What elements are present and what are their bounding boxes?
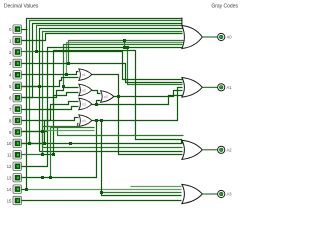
wire w34 bbox=[92, 96, 183, 105]
junction dot at 39,86 bbox=[38, 85, 41, 88]
svg-text:x3: x3 bbox=[82, 103, 86, 107]
input pin 7 bbox=[9, 105, 21, 113]
junction dot at 124,40 bbox=[123, 39, 126, 42]
input pin 5 bbox=[9, 82, 21, 90]
OR gate x3 bbox=[79, 98, 92, 110]
svg-text:14: 14 bbox=[7, 187, 12, 192]
OR gate x1 bbox=[79, 69, 92, 81]
wire w37 bbox=[92, 88, 183, 121]
wire w38 bbox=[102, 121, 182, 196]
wire w3 bbox=[22, 26, 183, 52]
OR gate A3 (multi-input) bbox=[182, 184, 202, 203]
input pin 4 bbox=[9, 71, 21, 79]
wire w41 bbox=[131, 186, 182, 188]
input pin 10 bbox=[7, 139, 22, 147]
svg-text:A1: A1 bbox=[227, 85, 233, 90]
wire w18 bbox=[37, 52, 183, 80]
junction dot at 102,192 bbox=[100, 191, 103, 194]
input pin 8 bbox=[9, 116, 21, 124]
svg-text:x2: x2 bbox=[82, 89, 86, 93]
output pin A0 bbox=[218, 33, 233, 40]
input pin 0 bbox=[9, 25, 21, 33]
wire w35 bbox=[97, 101, 101, 105]
svg-text:x4: x4 bbox=[82, 119, 86, 123]
wire w22 bbox=[27, 189, 182, 191]
wire w12 bbox=[69, 41, 184, 64]
svg-text:Gray Codes: Gray Codes bbox=[211, 4, 238, 10]
wire w6 bbox=[40, 151, 183, 153]
junction dot at 64,86 bbox=[62, 85, 65, 88]
svg-text:15: 15 bbox=[7, 198, 12, 203]
wire w27 bbox=[22, 93, 79, 110]
wire w10 bbox=[22, 34, 183, 41]
svg-text:13: 13 bbox=[7, 176, 12, 181]
wire w1 bbox=[22, 21, 183, 144]
wire w21 bbox=[30, 143, 183, 145]
junction dot at 50,178 bbox=[49, 176, 52, 179]
input pin 11 bbox=[7, 151, 21, 159]
output pin A3 bbox=[218, 190, 233, 197]
input pin 2 bbox=[9, 48, 21, 56]
junction dot at 54,155 bbox=[52, 153, 55, 156]
wire w29 bbox=[22, 107, 79, 132]
junction dot at 118,96 bbox=[117, 95, 120, 98]
wire w8 bbox=[43, 32, 183, 148]
wire w32 bbox=[92, 91, 101, 94]
wire w30 bbox=[22, 118, 79, 144]
junction dot at 43,178 bbox=[41, 176, 44, 179]
junction dot at 97,121 bbox=[95, 119, 98, 122]
svg-text:11: 11 bbox=[7, 153, 12, 158]
wire w2 bbox=[22, 24, 183, 98]
input pin 3 bbox=[9, 59, 21, 67]
wire w33 bbox=[92, 75, 183, 155]
input pin 6 bbox=[9, 94, 21, 102]
junction dot at 102,121 bbox=[100, 119, 103, 122]
wire w14 bbox=[64, 45, 183, 87]
input pin 9 bbox=[9, 128, 21, 136]
junction dot at 30,143 bbox=[28, 142, 31, 145]
wire w44 bbox=[50, 128, 52, 178]
wire w9 bbox=[43, 147, 183, 149]
svg-text:A2: A2 bbox=[227, 147, 233, 152]
output pin A2 bbox=[218, 146, 233, 153]
wire w11 bbox=[22, 29, 28, 31]
wire w15 bbox=[22, 48, 183, 167]
wire w4 bbox=[22, 86, 40, 88]
input pin 12 bbox=[7, 162, 22, 170]
input pin 13 bbox=[7, 174, 22, 182]
wire w28 bbox=[22, 102, 79, 121]
svg-text:x1: x1 bbox=[82, 73, 86, 77]
junction dot at 70,143 bbox=[69, 142, 72, 145]
svg-text:Decimal Values: Decimal Values bbox=[4, 4, 39, 10]
input pin 1 bbox=[9, 36, 21, 44]
OR gate A2 (multi-input) bbox=[182, 140, 202, 159]
wire w42 bbox=[58, 127, 184, 136]
svg-text:A3: A3 bbox=[227, 192, 233, 197]
wire A3 output bbox=[202, 193, 217, 195]
wire w43 bbox=[51, 127, 95, 129]
junction dot at 42,155 bbox=[41, 153, 44, 156]
junction dot at 66,75 bbox=[65, 73, 68, 76]
wire w0 bbox=[22, 19, 183, 190]
svg-text:10: 10 bbox=[7, 141, 12, 146]
wire w23 bbox=[22, 200, 182, 202]
wire w36 bbox=[114, 91, 183, 97]
wire w24 bbox=[22, 72, 79, 75]
input pin 15 bbox=[7, 196, 22, 204]
wire w7 bbox=[22, 131, 43, 133]
OR gate x5 bbox=[101, 91, 114, 103]
svg-text:x5: x5 bbox=[104, 95, 108, 99]
A0 input wing bbox=[181, 18, 183, 27]
OR gate x4 bbox=[79, 115, 92, 127]
OR gate A1 (multi-input) bbox=[182, 78, 202, 98]
wire A2 output bbox=[202, 149, 217, 151]
junction dot at 128,47 bbox=[126, 46, 129, 49]
OR gate x2 bbox=[79, 84, 92, 96]
junction dot at 124,47 bbox=[123, 46, 126, 49]
wire w20 bbox=[43, 51, 184, 155]
junction dot at 45,143 bbox=[43, 142, 46, 145]
svg-text:12: 12 bbox=[7, 164, 12, 169]
junction dot at 36,52 bbox=[35, 50, 38, 53]
junction dot at 43,132 bbox=[41, 130, 44, 133]
wire w26 bbox=[22, 88, 79, 98]
input pin 14 bbox=[7, 185, 22, 193]
wire w31 bbox=[22, 124, 79, 155]
OR gate A0 (multi-input) bbox=[182, 26, 202, 49]
junction dot at 69,63 bbox=[67, 62, 70, 65]
wire w45 bbox=[45, 130, 95, 132]
wire w19 bbox=[22, 64, 183, 83]
wire w25 bbox=[22, 78, 79, 87]
wire w13 bbox=[67, 43, 184, 75]
wire w16 bbox=[124, 41, 126, 48]
junction dot at 96,104 bbox=[95, 103, 98, 106]
wire A1 output bbox=[202, 86, 217, 88]
wire w40 bbox=[22, 121, 97, 178]
wire w17 bbox=[128, 48, 183, 85]
wire A0 output bbox=[202, 36, 217, 38]
wire w5 bbox=[40, 29, 183, 152]
output pin A1 bbox=[218, 84, 233, 91]
junction dot at 27,189 bbox=[25, 188, 28, 191]
wire w39 bbox=[102, 192, 182, 194]
svg-text:A0: A0 bbox=[227, 35, 233, 40]
